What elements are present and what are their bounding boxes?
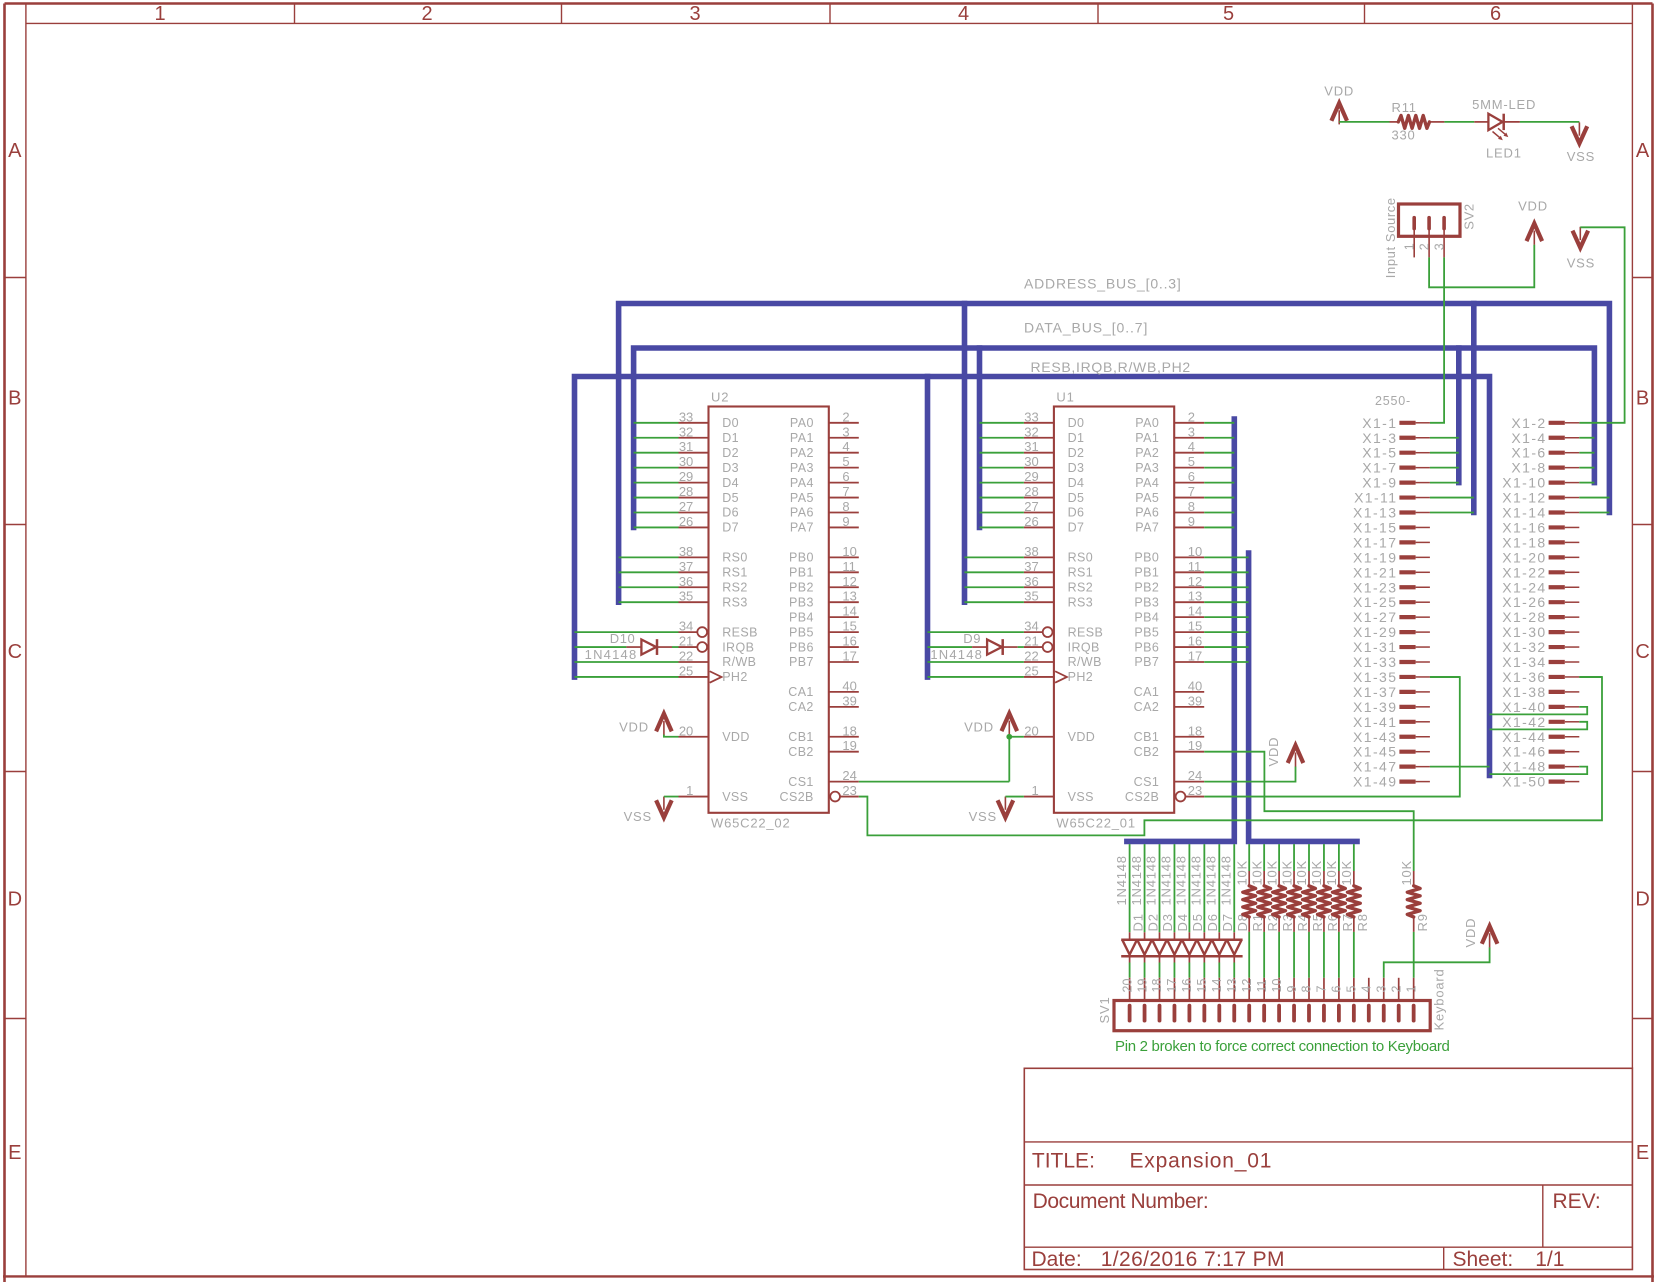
power VSS (LED circuit) [1567, 122, 1595, 164]
pin X1-41 [1353, 714, 1430, 730]
power VSS (U2) [624, 797, 672, 824]
svg-text:X1-30: X1-30 [1502, 624, 1546, 640]
wire X1-42 to RESB bus [1490, 722, 1588, 730]
pin X1-23 [1353, 579, 1430, 595]
svg-text:W65C22_02: W65C22_02 [711, 816, 790, 831]
pin X1-15 [1353, 519, 1430, 535]
pin X1-36 [1502, 669, 1579, 685]
svg-text:RS2: RS2 [1068, 580, 1094, 594]
svg-text:28: 28 [1024, 484, 1038, 499]
resistor R4 10K column [1279, 844, 1310, 978]
wire U2 PH2 [575, 676, 679, 678]
svg-text:PB3: PB3 [789, 595, 814, 609]
svg-text:RS1: RS1 [1068, 566, 1094, 580]
svg-text:CA2: CA2 [788, 700, 814, 714]
svg-text:LED1: LED1 [1486, 145, 1522, 160]
svg-text:3: 3 [689, 3, 700, 25]
wire U1 PH2 [928, 676, 1024, 678]
svg-text:PB1: PB1 [1134, 566, 1159, 580]
svg-text:X1-32: X1-32 [1502, 639, 1546, 655]
svg-text:20: 20 [1120, 979, 1134, 993]
svg-text:32: 32 [1024, 424, 1038, 439]
wire X1-40 to RESB bus [1490, 707, 1588, 715]
diode D6 1N4148 column [1189, 844, 1221, 978]
svg-text:D0: D0 [1068, 416, 1085, 430]
svg-text:36: 36 [1024, 574, 1038, 589]
svg-text:X1-22: X1-22 [1502, 564, 1546, 580]
svg-text:PB7: PB7 [789, 655, 814, 669]
svg-text:14: 14 [1188, 604, 1202, 619]
svg-text:PB5: PB5 [1134, 625, 1159, 639]
svg-text:X1-2: X1-2 [1511, 415, 1546, 431]
svg-text:2: 2 [1389, 986, 1403, 993]
svg-text:D7: D7 [1068, 521, 1085, 535]
svg-text:PA4: PA4 [1135, 476, 1159, 490]
svg-text:C: C [1635, 641, 1649, 663]
svg-text:C: C [8, 641, 22, 663]
svg-text:X1-3: X1-3 [1362, 430, 1397, 446]
svg-text:5: 5 [1223, 3, 1234, 25]
wire X1-47 to RESB bus [1430, 766, 1490, 768]
pin X1-6 [1511, 445, 1579, 461]
svg-text:D3: D3 [722, 461, 739, 475]
svg-text:D: D [8, 889, 22, 911]
svg-text:VDD: VDD [722, 730, 750, 744]
wire U2 RESB [575, 631, 679, 633]
svg-text:X1-45: X1-45 [1353, 744, 1397, 760]
svg-text:6: 6 [1490, 3, 1501, 25]
diode D3 1N4148 column [1144, 844, 1176, 978]
wire D10 to U2 IRQB [672, 646, 679, 648]
svg-text:30: 30 [679, 454, 693, 469]
diode D4 1N4148 column [1159, 844, 1191, 978]
svg-text:25: 25 [679, 663, 693, 678]
wire R11 to LED1 [1444, 121, 1474, 123]
svg-text:D5: D5 [722, 491, 739, 505]
svg-text:PA7: PA7 [790, 521, 814, 535]
svg-text:B: B [1636, 388, 1649, 410]
svg-text:10: 10 [842, 544, 856, 559]
svg-text:RS0: RS0 [722, 551, 748, 565]
wire U2 CS2B to X1-36 [859, 677, 1602, 835]
svg-text:10K: 10K [1339, 860, 1354, 886]
svg-text:D1: D1 [722, 431, 739, 445]
svg-text:D: D [1635, 889, 1649, 911]
svg-text:17: 17 [1188, 649, 1202, 664]
svg-text:13: 13 [842, 589, 856, 604]
svg-text:X1-37: X1-37 [1353, 684, 1397, 700]
pin X1-20 [1502, 549, 1579, 565]
svg-text:X1-24: X1-24 [1502, 579, 1546, 595]
svg-text:PB3: PB3 [1134, 595, 1159, 609]
pin X1-7 [1362, 460, 1430, 476]
pin X1-48 [1502, 759, 1579, 775]
svg-text:D7: D7 [722, 521, 739, 535]
power VSS (U1) [969, 797, 1014, 824]
svg-text:12: 12 [842, 574, 856, 589]
svg-text:D9: D9 [963, 631, 981, 646]
svg-text:13: 13 [1188, 589, 1202, 604]
resistor R9 10K [1399, 860, 1430, 978]
svg-text:11: 11 [842, 559, 856, 574]
svg-text:1N4148: 1N4148 [930, 647, 983, 662]
pin X1-18 [1502, 534, 1579, 550]
svg-text:X1-14: X1-14 [1502, 505, 1546, 521]
pin X1-27 [1353, 609, 1430, 625]
svg-text:X1-46: X1-46 [1502, 744, 1546, 760]
svg-text:330: 330 [1392, 128, 1416, 143]
svg-text:D2: D2 [722, 446, 739, 460]
svg-text:D6: D6 [1205, 913, 1220, 931]
svg-text:4: 4 [958, 3, 969, 25]
pin X1-22 [1502, 564, 1579, 580]
svg-text:PA5: PA5 [790, 491, 814, 505]
svg-text:6: 6 [1330, 986, 1344, 993]
title block [1024, 1068, 1632, 1271]
svg-text:VDD: VDD [1518, 199, 1548, 214]
svg-text:1: 1 [1402, 243, 1416, 250]
pin X1-40 [1502, 699, 1579, 715]
svg-text:37: 37 [1024, 559, 1038, 574]
wire U2 IRQB left segment [575, 646, 627, 648]
resistor R8 10K column [1339, 844, 1370, 978]
svg-text:ADDRESS_BUS_[0..3]: ADDRESS_BUS_[0..3] [1024, 276, 1182, 292]
svg-text:2: 2 [842, 409, 849, 424]
svg-text:Date:: Date: [1032, 1248, 1082, 1271]
pin X1-25 [1353, 594, 1430, 610]
svg-text:9: 9 [1188, 514, 1195, 529]
svg-text:5: 5 [842, 454, 849, 469]
svg-text:RESB,IRQB,R/WB,PH2: RESB,IRQB,R/WB,PH2 [1031, 359, 1191, 375]
pin X1-10 [1502, 475, 1579, 491]
svg-text:D0: D0 [722, 416, 739, 430]
svg-text:1N4148: 1N4148 [1174, 855, 1189, 905]
svg-text:X1-47: X1-47 [1353, 759, 1397, 775]
svg-text:1: 1 [686, 783, 693, 798]
svg-text:RS1: RS1 [722, 566, 748, 580]
svg-text:19: 19 [842, 738, 856, 753]
pin X1-43 [1353, 729, 1430, 745]
svg-text:7: 7 [842, 484, 849, 499]
svg-text:3: 3 [842, 424, 849, 439]
svg-text:D1: D1 [1068, 431, 1085, 445]
svg-text:1N4148: 1N4148 [1189, 855, 1204, 905]
svg-text:10K: 10K [1399, 860, 1414, 886]
svg-text:1N4148: 1N4148 [1204, 855, 1219, 905]
svg-text:CS2B: CS2B [780, 790, 814, 804]
svg-text:PH2: PH2 [722, 670, 748, 684]
svg-text:PB7: PB7 [1134, 655, 1159, 669]
svg-text:X1-20: X1-20 [1502, 549, 1546, 565]
svg-text:37: 37 [679, 559, 693, 574]
pin X1-33 [1353, 654, 1430, 670]
svg-text:3: 3 [1374, 986, 1388, 993]
svg-text:20: 20 [679, 723, 693, 738]
svg-text:X1-10: X1-10 [1502, 475, 1546, 491]
svg-text:5MM-LED: 5MM-LED [1472, 97, 1536, 112]
pin X1-42 [1502, 714, 1579, 730]
wire SV1 pin3 to VDD [1384, 947, 1490, 978]
IC U2 W65C22 [679, 390, 859, 831]
svg-text:A: A [8, 140, 22, 162]
svg-text:5: 5 [1188, 454, 1195, 469]
svg-text:X1-39: X1-39 [1353, 699, 1397, 715]
svg-text:PA0: PA0 [1135, 416, 1159, 430]
svg-text:39: 39 [842, 693, 856, 708]
svg-text:1N4148: 1N4148 [1144, 855, 1159, 905]
svg-text:2550-: 2550- [1375, 394, 1411, 408]
svg-text:9: 9 [842, 514, 849, 529]
pin X1-32 [1502, 639, 1579, 655]
svg-text:19: 19 [1135, 979, 1149, 993]
svg-text:10K: 10K [1294, 860, 1309, 886]
svg-text:IRQB: IRQB [1068, 640, 1100, 654]
pin X1-21 [1353, 564, 1430, 580]
bus DATA_BUS_[0..7] [634, 320, 1595, 528]
svg-text:X1-12: X1-12 [1502, 490, 1546, 506]
svg-text:40: 40 [1188, 678, 1202, 693]
svg-text:X1-1: X1-1 [1362, 415, 1397, 431]
svg-text:X1-42: X1-42 [1502, 714, 1546, 730]
svg-text:X1-16: X1-16 [1502, 519, 1546, 535]
svg-text:SV2: SV2 [1462, 203, 1477, 229]
resistor R5 10K column [1294, 844, 1325, 978]
pin X1-13 [1353, 505, 1430, 521]
wires X1-4..10 to DATA bus [1579, 438, 1594, 483]
svg-text:CA2: CA2 [1134, 700, 1160, 714]
pin X1-38 [1502, 684, 1579, 700]
diode D2 1N4148 column [1129, 844, 1161, 978]
svg-text:U2: U2 [711, 390, 729, 405]
svg-text:10K: 10K [1309, 860, 1324, 886]
wire U2 R/WB [575, 661, 679, 663]
svg-text:40: 40 [842, 678, 856, 693]
resistor R6 10K column [1309, 844, 1340, 978]
svg-text:1: 1 [154, 3, 165, 25]
svg-text:CS2B: CS2B [1125, 790, 1159, 804]
svg-text:CA1: CA1 [1134, 685, 1160, 699]
svg-text:22: 22 [679, 649, 693, 664]
wire VSS to U1 pin 1 [1005, 796, 1024, 798]
pin X1-8 [1511, 460, 1579, 476]
svg-text:DATA_BUS_[0..7]: DATA_BUS_[0..7] [1024, 320, 1148, 336]
svg-text:11: 11 [1255, 979, 1269, 992]
svg-text:CS1: CS1 [1134, 775, 1160, 789]
pin X1-11 [1354, 490, 1430, 506]
power VDD (U1 CS1) [1266, 737, 1304, 767]
svg-text:17: 17 [842, 649, 856, 664]
svg-text:VSS: VSS [1567, 149, 1595, 164]
svg-text:24: 24 [1188, 768, 1202, 783]
svg-text:30: 30 [1024, 454, 1038, 469]
wire U1 CS1 to VDD [1204, 767, 1295, 782]
svg-text:27: 27 [1024, 499, 1038, 514]
svg-text:CB1: CB1 [1134, 730, 1160, 744]
connector SV1 Keyboard [1097, 968, 1447, 1030]
pin X1-47 [1353, 759, 1430, 775]
pin X1-44 [1502, 729, 1579, 745]
svg-text:35: 35 [1024, 589, 1038, 604]
svg-text:31: 31 [679, 439, 693, 454]
svg-text:VSS: VSS [1567, 255, 1595, 270]
svg-text:33: 33 [679, 409, 693, 424]
svg-text:X1-50: X1-50 [1502, 774, 1546, 790]
wire X1-48 to RESB bus [1490, 767, 1588, 774]
svg-text:E: E [1636, 1142, 1649, 1164]
wires U1 RS0-RS3 to ADDRESS bus [965, 557, 1024, 602]
pin X1-12 [1502, 490, 1579, 506]
wire U1 IRQB left segment [928, 646, 973, 648]
svg-text:32: 32 [679, 424, 693, 439]
svg-text:1: 1 [1031, 783, 1038, 798]
svg-text:D5: D5 [1068, 491, 1085, 505]
svg-text:X1-31: X1-31 [1353, 639, 1397, 655]
svg-text:20: 20 [1024, 723, 1038, 738]
pin X1-24 [1502, 579, 1579, 595]
wires X1-11,13 to ADDRESS bus [1430, 498, 1474, 513]
svg-text:X1-29: X1-29 [1353, 624, 1397, 640]
svg-text:PB2: PB2 [789, 580, 814, 594]
power VDD (U2) [619, 714, 672, 735]
svg-text:29: 29 [679, 469, 693, 484]
svg-text:10: 10 [1270, 979, 1284, 993]
svg-text:R9: R9 [1415, 913, 1430, 931]
svg-text:1: 1 [1404, 986, 1418, 993]
row letters A-E [8, 140, 1650, 1164]
svg-text:B: B [8, 388, 21, 410]
svg-text:X1-44: X1-44 [1502, 729, 1546, 745]
svg-text:RS3: RS3 [722, 595, 748, 609]
wire X1-35 stub link [1430, 676, 1460, 678]
svg-text:PA1: PA1 [790, 431, 814, 445]
svg-text:VDD: VDD [1068, 730, 1096, 744]
svg-text:X1-27: X1-27 [1353, 609, 1397, 625]
svg-text:1N4148: 1N4148 [1159, 855, 1174, 905]
svg-text:PA4: PA4 [790, 476, 814, 490]
svg-text:IRQB: IRQB [722, 640, 754, 654]
svg-text:PB6: PB6 [789, 640, 814, 654]
svg-text:Document Number:: Document Number: [1033, 1190, 1209, 1213]
svg-text:6: 6 [1188, 469, 1195, 484]
svg-text:VDD: VDD [1463, 918, 1478, 948]
svg-text:12: 12 [1188, 574, 1202, 589]
svg-text:X1-18: X1-18 [1502, 534, 1546, 550]
svg-text:PB4: PB4 [789, 610, 814, 624]
svg-text:CB1: CB1 [788, 730, 814, 744]
svg-text:D4: D4 [722, 476, 739, 490]
pin X1-46 [1502, 744, 1579, 760]
wires U1 data D0-D7 to DATA bus [980, 423, 1024, 528]
svg-text:11: 11 [1188, 559, 1202, 574]
svg-text:PB5: PB5 [789, 625, 814, 639]
svg-text:X1-36: X1-36 [1502, 669, 1546, 685]
svg-text:16: 16 [1180, 979, 1194, 993]
resistor R11 330 [1390, 100, 1445, 143]
svg-text:X1-38: X1-38 [1502, 684, 1546, 700]
wire U1 RESB [928, 631, 1024, 633]
pin X1-9 [1362, 475, 1430, 491]
svg-text:PA5: PA5 [1135, 491, 1159, 505]
svg-text:12: 12 [1240, 979, 1254, 993]
svg-text:D10: D10 [610, 631, 636, 646]
svg-text:10K: 10K [1264, 860, 1279, 886]
power VDD (LED circuit) [1324, 84, 1354, 125]
svg-text:TITLE:: TITLE: [1032, 1150, 1095, 1173]
svg-text:2: 2 [421, 3, 432, 25]
svg-text:X1-11: X1-11 [1354, 490, 1397, 506]
svg-text:7: 7 [1315, 986, 1329, 993]
pin X1-31 [1353, 639, 1430, 655]
wire U1 CS2B to X1-35 [1204, 677, 1460, 797]
svg-text:X1-23: X1-23 [1353, 579, 1397, 595]
wire LED1 to VSS [1520, 121, 1580, 123]
svg-text:Input Source: Input Source [1383, 197, 1398, 278]
svg-text:1N4148: 1N4148 [1129, 855, 1144, 905]
power VDD (keyboard) [1463, 918, 1498, 948]
svg-text:28: 28 [679, 484, 693, 499]
svg-text:1N4148: 1N4148 [585, 647, 638, 662]
pin X1-1 [1362, 415, 1430, 431]
svg-text:X1-21: X1-21 [1353, 564, 1397, 580]
pin X1-30 [1502, 624, 1579, 640]
svg-text:19: 19 [1188, 738, 1202, 753]
wire SV2 pin2 to VDD [1429, 245, 1534, 288]
svg-text:16: 16 [842, 634, 856, 649]
svg-text:35: 35 [679, 589, 693, 604]
wire SV2 pin3 to X1-1 [1430, 257, 1444, 422]
svg-text:Keyboard: Keyboard [1432, 968, 1447, 1030]
svg-text:D3: D3 [1160, 913, 1175, 931]
svg-text:X1-17: X1-17 [1353, 534, 1397, 550]
svg-text:PA1: PA1 [1135, 431, 1159, 445]
svg-text:PA6: PA6 [790, 506, 814, 520]
svg-text:10K: 10K [1279, 860, 1294, 886]
svg-text:X1-4: X1-4 [1511, 430, 1546, 446]
svg-text:8: 8 [1188, 499, 1195, 514]
wires U2 RS0-RS3 to ADDRESS bus [619, 557, 679, 602]
diode D9 1N4148 [930, 631, 1017, 662]
svg-text:CB2: CB2 [1134, 745, 1160, 759]
svg-text:X1-43: X1-43 [1353, 729, 1397, 745]
svg-text:RS2: RS2 [722, 580, 748, 594]
wire VDD to U2 pin 20 [664, 735, 679, 737]
svg-text:RESB: RESB [722, 625, 758, 639]
svg-text:10K: 10K [1234, 860, 1249, 886]
svg-text:1/1: 1/1 [1535, 1248, 1564, 1271]
svg-text:VSS: VSS [624, 809, 652, 824]
svg-text:X1-35: X1-35 [1353, 669, 1397, 685]
svg-text:3: 3 [1432, 243, 1446, 250]
diode D10 1N4148 [585, 631, 672, 662]
svg-text:PA2: PA2 [790, 446, 814, 460]
wire X1-36 stub link [1579, 676, 1602, 678]
svg-text:X1-7: X1-7 [1362, 460, 1397, 476]
svg-text:D4: D4 [1175, 913, 1190, 931]
pin X1-35 [1353, 669, 1430, 685]
pin X1-50 [1502, 774, 1579, 790]
svg-text:X1-49: X1-49 [1353, 774, 1397, 790]
svg-text:10K: 10K [1249, 860, 1264, 886]
svg-text:33: 33 [1024, 409, 1038, 424]
diode D8 1N4148 column [1218, 844, 1250, 978]
svg-text:X1-15: X1-15 [1353, 519, 1397, 535]
diode D5 1N4148 column [1174, 844, 1206, 978]
IC U1 W65C22 [1024, 390, 1204, 831]
svg-text:18: 18 [1188, 723, 1202, 738]
svg-text:D3: D3 [1068, 461, 1085, 475]
wire U1 R/WB [928, 661, 1024, 663]
svg-text:VDD: VDD [964, 720, 994, 735]
